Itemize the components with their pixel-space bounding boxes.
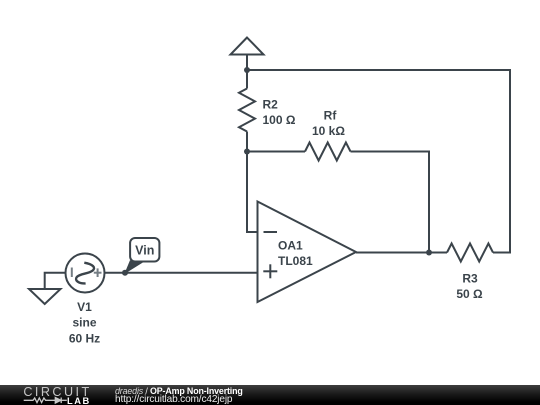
node junction output: [426, 250, 432, 256]
wire to Rf: [247, 151, 305, 153]
resistor R3: [447, 244, 493, 262]
voltage source V1 circle: [66, 254, 105, 293]
svg-text:sine: sine: [72, 316, 96, 330]
resistor R2: [239, 70, 255, 152]
power flag VCC: [231, 38, 264, 71]
svg-text:10 kΩ: 10 kΩ: [312, 124, 345, 138]
op-amp designator OA1 TL081: [278, 239, 313, 268]
wire output to R3: [429, 252, 447, 254]
svg-text:Rf: Rf: [324, 109, 338, 123]
node Vin dot: [122, 270, 128, 276]
resistor Rf: [305, 143, 351, 161]
CircuitLab logo: [0, 385, 100, 405]
wire top rail: [247, 70, 510, 253]
wire R3 to right rail: [493, 252, 511, 254]
wire feedback down to inverting input: [247, 152, 258, 233]
R2 value label: [263, 98, 296, 128]
node junction top: [244, 67, 250, 73]
footer credit text: [115, 387, 243, 405]
op-amp plus input mark: [263, 264, 277, 278]
svg-text:60 Hz: 60 Hz: [69, 332, 100, 346]
V1 minus terminal mark: [71, 268, 73, 278]
Vin flag box: [130, 238, 159, 262]
op-amp OA1: [258, 202, 357, 303]
svg-text:R3: R3: [462, 272, 478, 286]
svg-text:LAB: LAB: [67, 395, 91, 405]
svg-text:V1: V1: [77, 300, 92, 314]
wire V1 left to ground: [45, 273, 66, 289]
node junction feedback: [244, 149, 250, 155]
op-amp minus input mark: [264, 231, 278, 233]
wire V1 to op-amp plus input: [105, 272, 258, 274]
svg-text:100 Ω: 100 Ω: [263, 113, 296, 127]
V1 labels: [69, 300, 100, 346]
R3 value label: [456, 272, 483, 302]
svg-text:OA1: OA1: [278, 239, 303, 253]
ground: [29, 289, 61, 304]
svg-text:R2: R2: [263, 98, 279, 112]
Vin flag pointer: [125, 261, 144, 273]
svg-text:Vin: Vin: [135, 244, 154, 258]
footer bar: [0, 385, 540, 405]
svg-text:50 Ω: 50 Ω: [456, 287, 483, 301]
wire Rf to output corner: [351, 152, 430, 253]
V1 plus terminal mark: [94, 268, 102, 277]
svg-text:TL081: TL081: [278, 254, 313, 268]
Rf value label: [312, 109, 345, 139]
V1 sine squiggle: [76, 263, 94, 284]
wire op-amp output: [356, 252, 429, 254]
